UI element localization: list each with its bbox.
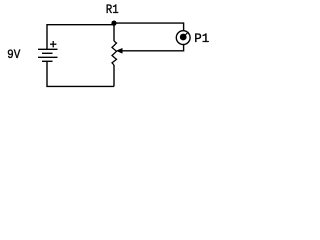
battery plus sign	[50, 41, 56, 47]
battery B1 9V	[38, 49, 58, 61]
svg-text:9V: 9V	[7, 47, 20, 62]
probe P1 needle	[183, 32, 188, 37]
wire resistor top	[113, 23, 115, 41]
wire top-right (node A to probe)	[114, 23, 184, 31]
svg-text:R1: R1	[106, 2, 119, 17]
wire top-left (battery + to node A)	[47, 25, 114, 50]
wire probe bottom to wiper	[122, 45, 184, 51]
probe P1 center dot	[180, 34, 187, 41]
probe P1 outer circle	[176, 31, 190, 45]
node A junction dot	[111, 21, 116, 26]
wiper arrowhead	[116, 48, 123, 54]
svg-text:P1: P1	[194, 31, 209, 46]
resistor R1 zigzag (potentiometer)	[112, 41, 117, 65]
wire resistor bottom	[113, 65, 115, 86]
wire battery bottom	[47, 61, 114, 86]
